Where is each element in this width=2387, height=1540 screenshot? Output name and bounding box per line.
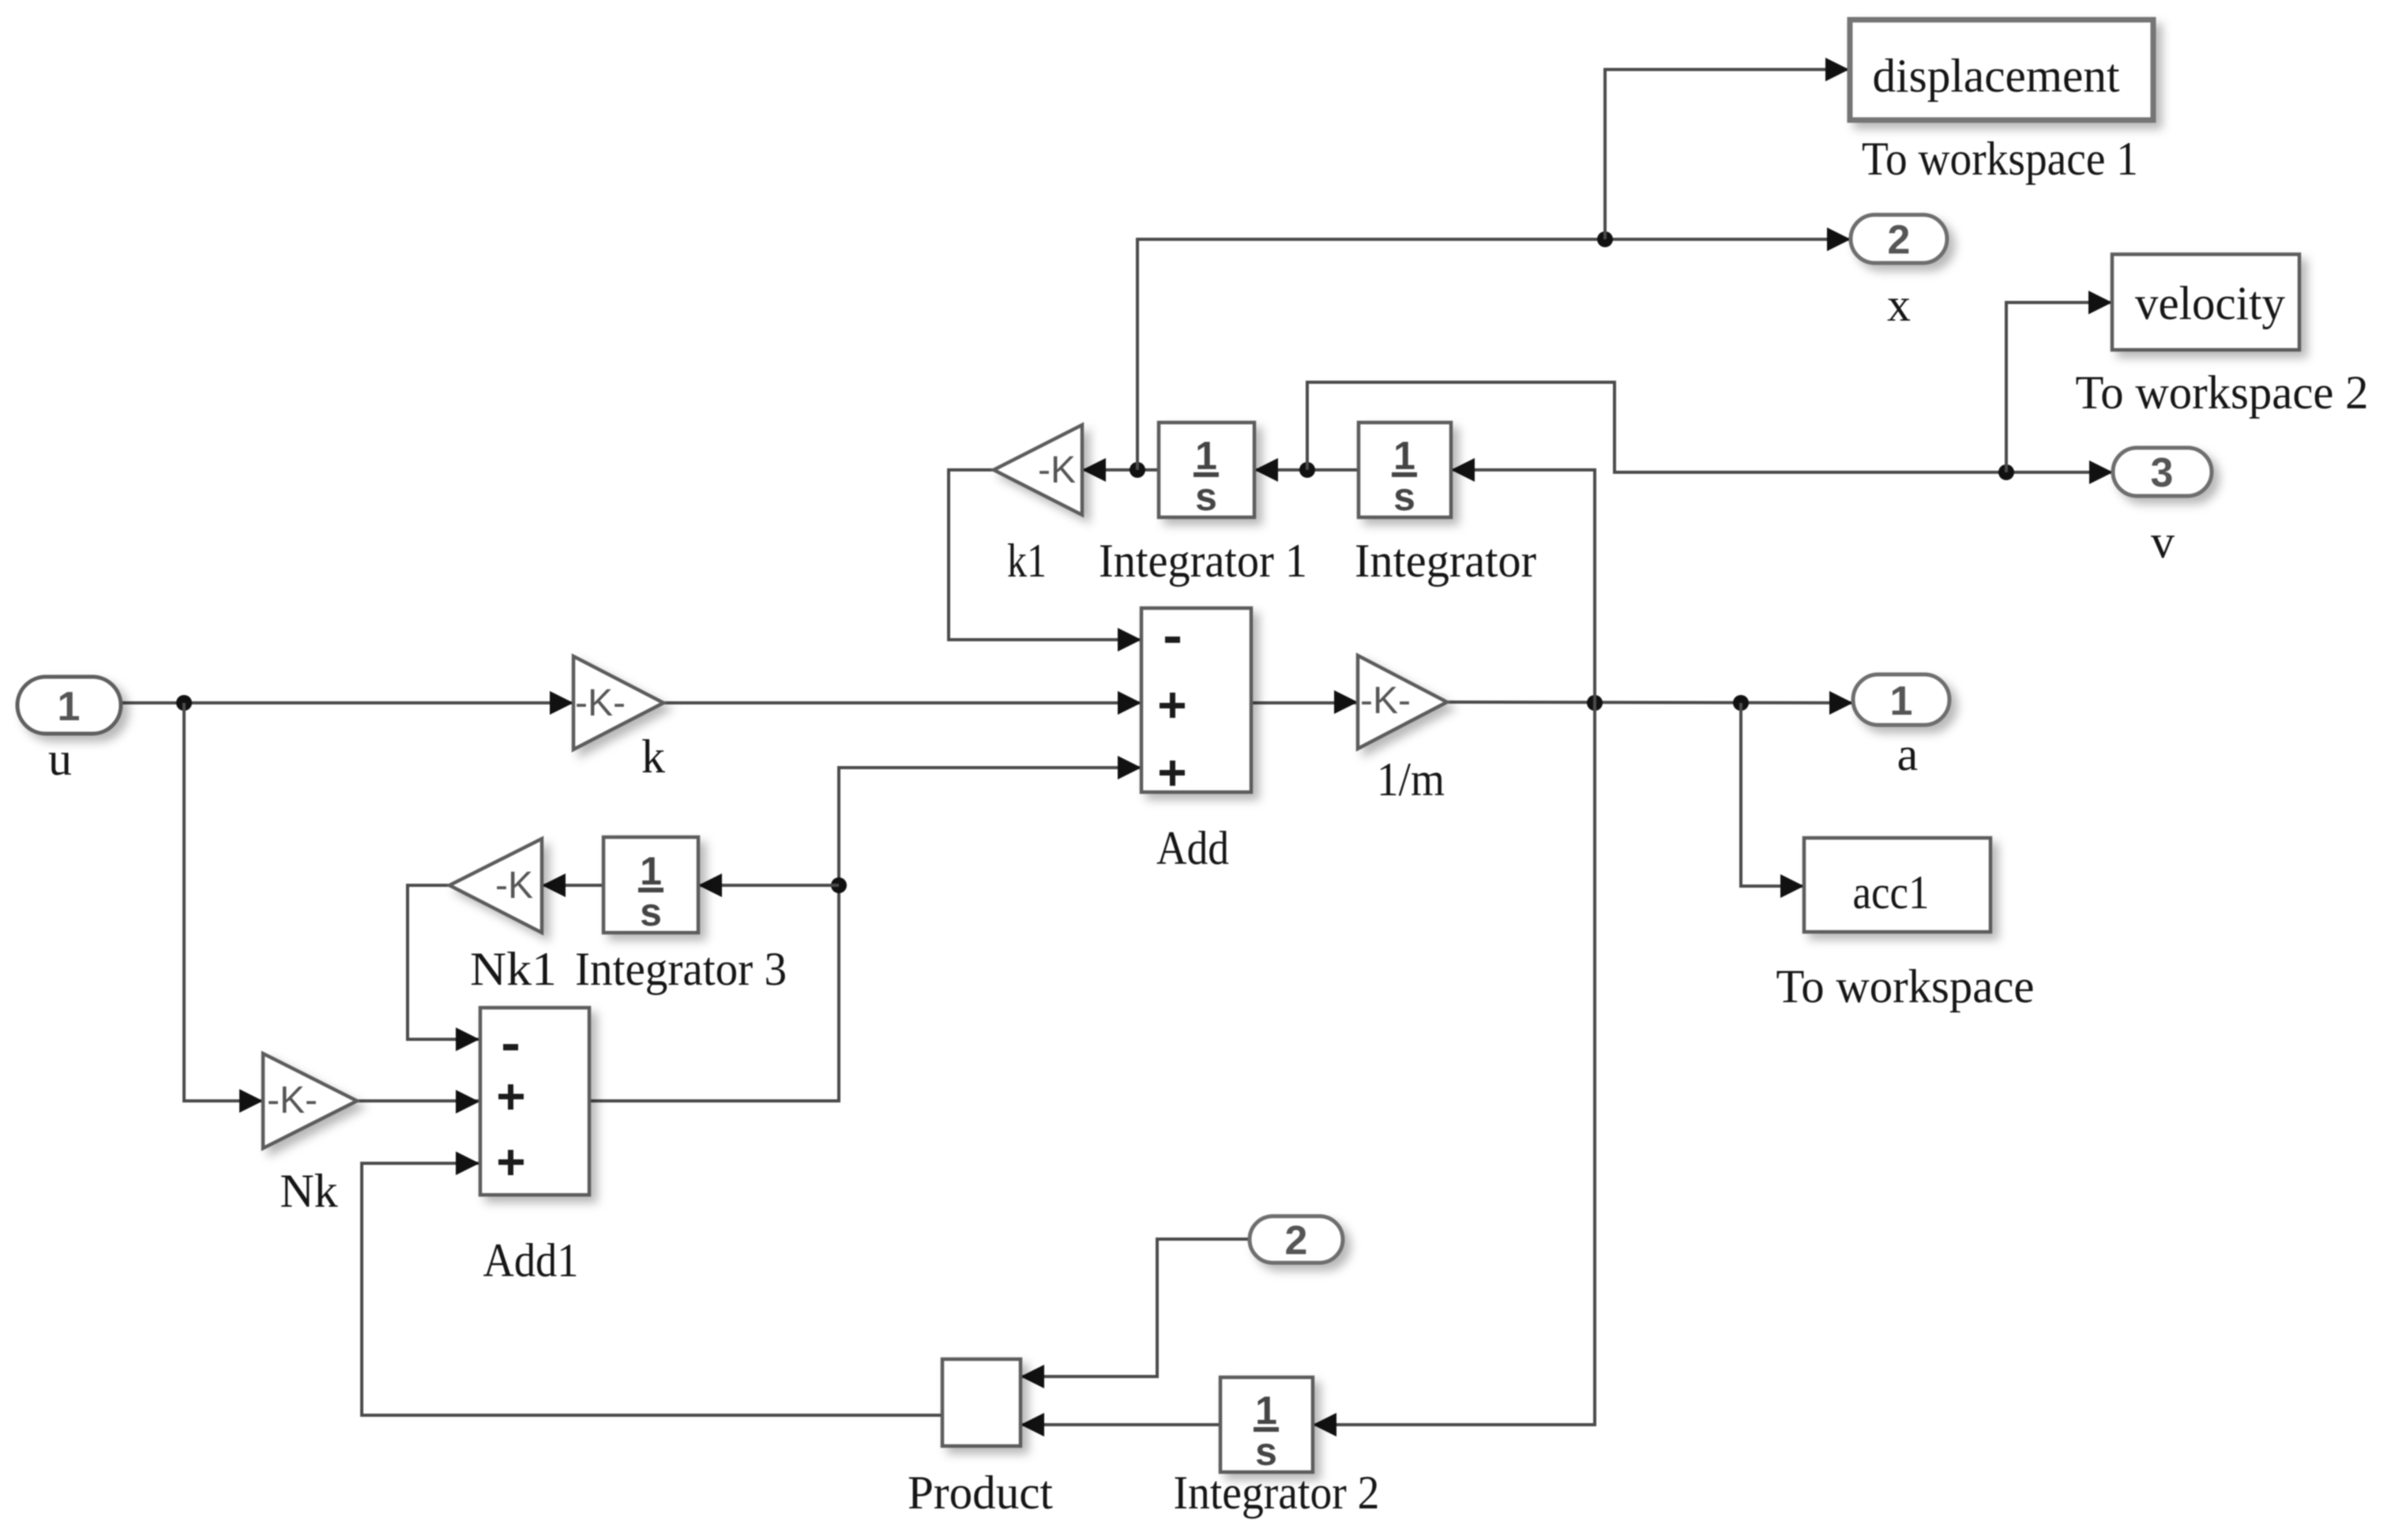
svg-text:velocity: velocity <box>2135 277 2285 329</box>
node x branch junction <box>1130 462 1145 478</box>
node Integrator 3 branch junction <box>831 877 847 893</box>
svg-text:Integrator 1: Integrator 1 <box>1099 535 1307 587</box>
wire a line up to Integrator input <box>1451 470 1595 703</box>
outport 2 x <box>1851 215 1947 263</box>
To Workspace block displacement <box>1850 20 2153 120</box>
gain Nk <box>263 1054 357 1148</box>
svg-text:a: a <box>1897 728 1919 780</box>
wire branch to Integrator 3 input <box>698 884 839 887</box>
svg-text:To workspace: To workspace <box>1776 960 2035 1012</box>
wire gain k to Add input 2 <box>663 701 1141 704</box>
svg-text:3: 3 <box>2151 450 2174 496</box>
wire Integrator to Integrator 1 <box>1254 468 1359 471</box>
integrator block <box>1359 423 1451 519</box>
wire branch down to acc1 <box>1741 703 1804 886</box>
svg-text:s: s <box>1393 475 1415 519</box>
svg-text:1: 1 <box>1890 678 1913 724</box>
svg-text:1/m: 1/m <box>1377 753 1445 806</box>
inport 2 <box>1250 1216 1343 1264</box>
svg-text:-K-: -K- <box>575 682 626 724</box>
gain Nk1 <box>449 839 542 933</box>
wire gain k1 to Add input 1 <box>949 470 1141 640</box>
inport 1 u <box>17 677 121 734</box>
wire inport 2 to Product input 1 <box>1021 1239 1250 1377</box>
Product block <box>942 1359 1021 1446</box>
wire Integrator 3 to gain Nk1 <box>542 884 603 887</box>
integrator 1 block <box>1159 423 1254 519</box>
svg-text:-K-: -K- <box>267 1080 318 1121</box>
wire Integrator 1 to gain k1 <box>1082 468 1159 471</box>
svg-text:-K-: -K- <box>1360 680 1411 722</box>
svg-text:s: s <box>640 890 662 934</box>
svg-text:1: 1 <box>1393 434 1415 478</box>
integrator 2 block <box>1220 1377 1313 1474</box>
svg-text:-K: -K <box>495 865 533 907</box>
wire gain Nk1 to Add1 input 1 <box>408 885 479 1039</box>
node u branch junction <box>176 695 192 711</box>
node integrator feed junction <box>1587 695 1603 711</box>
wire u to gain k <box>121 701 573 704</box>
svg-text:To workspace 2: To workspace 2 <box>2076 366 2369 419</box>
wire Integrator 2 to Product input 2 <box>1021 1423 1220 1426</box>
gain 1/m <box>1358 655 1447 749</box>
svg-text:1: 1 <box>58 684 81 730</box>
outport 1 a <box>1853 674 1949 725</box>
svg-text:Add: Add <box>1156 822 1229 874</box>
svg-text:1: 1 <box>1255 1388 1277 1433</box>
svg-text:To workspace 1: To workspace 1 <box>1862 133 2138 185</box>
outport 3 v <box>2113 448 2212 496</box>
svg-text:Integrator 3: Integrator 3 <box>575 943 787 995</box>
wire gain Nk to Add1 input 2 <box>357 1099 479 1102</box>
svg-text:displacement: displacement <box>1873 50 2120 102</box>
node displacement branch junction <box>1597 231 1613 247</box>
integrator 3 block <box>603 837 698 934</box>
node acc1 branch junction <box>1733 695 1749 711</box>
To Workspace block velocity <box>2112 254 2299 350</box>
svg-text:Nk: Nk <box>280 1165 337 1217</box>
wire branch to velocity block <box>2006 302 2112 472</box>
svg-text:1: 1 <box>640 849 662 893</box>
node velocity branch junction <box>1998 464 2014 480</box>
svg-text:Add1: Add1 <box>483 1234 579 1286</box>
wire a line gain 1/m to outport 1 <box>1447 702 1853 703</box>
wire Product output to Add1 input 3 <box>362 1163 942 1415</box>
gain k1 <box>994 425 1082 515</box>
Add block <box>1141 608 1251 792</box>
wire u branch down to gain Nk <box>184 703 263 1101</box>
wire Add1 output up to Add input 3 <box>590 768 1141 1101</box>
To Workspace block acc1 <box>1804 838 1990 932</box>
svg-text:-K: -K <box>1038 449 1076 491</box>
Add1 block <box>480 1008 589 1195</box>
wire a line down to Integrator 2 input <box>1313 703 1595 1425</box>
svg-text:acc1: acc1 <box>1853 866 1930 918</box>
svg-text:2: 2 <box>1285 1218 1308 1264</box>
svg-text:k: k <box>641 731 665 783</box>
wire v line to outport 3 <box>1307 382 2113 472</box>
svg-text:u: u <box>48 733 72 785</box>
svg-text:v: v <box>2151 516 2175 568</box>
svg-text:Product: Product <box>908 1467 1053 1519</box>
wire Add to gain 1/m <box>1251 701 1358 704</box>
gain k <box>573 656 663 749</box>
svg-text:x: x <box>1887 279 1911 331</box>
svg-text:Integrator: Integrator <box>1355 535 1536 587</box>
svg-text:k1: k1 <box>1007 535 1047 587</box>
wire branch to displacement block <box>1605 69 1849 239</box>
svg-text:Nk1: Nk1 <box>470 943 557 995</box>
svg-text:1: 1 <box>1195 434 1217 478</box>
svg-text:2: 2 <box>1888 217 1911 263</box>
svg-text:s: s <box>1195 475 1217 519</box>
svg-text:Integrator 2: Integrator 2 <box>1174 1467 1380 1519</box>
node v branch junction <box>1299 462 1315 478</box>
wire x line to outport 2 <box>1137 239 1851 470</box>
